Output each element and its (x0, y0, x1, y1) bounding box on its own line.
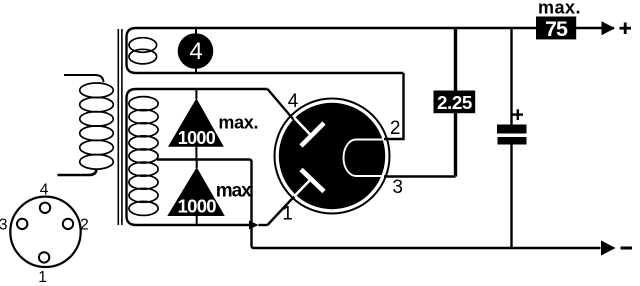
primary winding P1 (58, 75, 114, 175)
wire: anode lead to pin 4 (268, 89, 297, 123)
svg-text:2: 2 (80, 217, 89, 234)
wire: 4V label tie line (195, 28, 197, 73)
wire: pin 2 to filament winding (384, 73, 404, 139)
triangle label 1000V max (upper half) (195, 89, 197, 99)
wire: HV bottom lead hop over centre-tap drop (249, 221, 259, 230)
socket pin 3 (17, 219, 27, 229)
svg-text:2.25: 2.25 (437, 92, 472, 113)
socket pin 4 (40, 203, 50, 213)
svg-text:2: 2 (390, 118, 401, 139)
svg-text:3: 3 (392, 177, 403, 198)
svg-text:max: max (216, 180, 252, 201)
filament winding S1 (4V) + top rail wire (127, 28, 615, 73)
svg-text:1: 1 (38, 269, 47, 286)
HV winding S2 outline + top/bottom leads (127, 89, 268, 225)
wire: centre tap to negative rail (157, 160, 601, 249)
label 4V circle (178, 33, 214, 69)
svg-text:max.: max. (218, 113, 258, 133)
wire: pin 3 to + rail (2.25 A) (384, 175, 456, 177)
svg-text:3: 3 (0, 217, 8, 234)
svg-text:4: 4 (40, 182, 49, 199)
socket pin labels (0, 182, 89, 286)
tube anode a1 (pin 4) (295, 118, 313, 137)
svg-text:max.: max. (538, 0, 581, 18)
wire: anode lead to pin 1 (268, 195, 297, 226)
transformer core (118, 29, 122, 225)
label box 2.25 (434, 91, 476, 114)
svg-text:4: 4 (288, 91, 299, 112)
socket base view (10, 197, 80, 267)
capacitor + polarity mark (513, 109, 524, 120)
tube filament f (344, 140, 384, 177)
svg-text:4: 4 (189, 38, 202, 65)
svg-text:75: 75 (545, 17, 568, 41)
svg-text:1000: 1000 (178, 196, 217, 217)
svg-text:1: 1 (282, 204, 293, 225)
socket pin 1 (39, 252, 49, 262)
HV winding turns (129, 97, 158, 216)
tube anode a2 (pin 1) (294, 179, 312, 197)
- output arrow (601, 240, 616, 255)
socket pin 2 (63, 219, 73, 229)
rectifier tube V1 envelope (275, 99, 390, 214)
filament winding turns (129, 38, 157, 64)
+ output arrow (602, 21, 616, 35)
pin number labels (282, 91, 403, 225)
triangle label 1000V max (lower half) (196, 160, 198, 169)
svg-text:1000: 1000 (178, 128, 216, 148)
capacitor C1 (510, 28, 512, 126)
